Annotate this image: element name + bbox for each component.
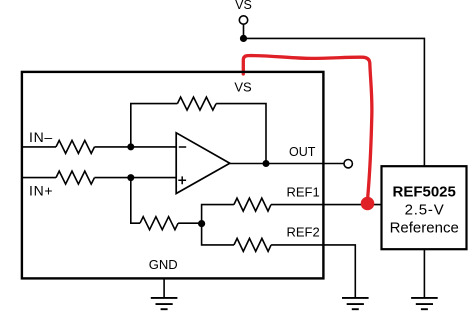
terminal OUT open circle (344, 160, 352, 168)
wire IN- to op-amp minus input (95, 146, 177, 148)
wire VS junction to REF5025 VIN (244, 38, 425, 166)
svg-text:REF2: REF2 (287, 225, 320, 240)
wire VS terminal to junction (243, 24, 245, 38)
difference amplifier box U1 (22, 72, 324, 279)
ground symbol below GND (151, 298, 178, 309)
wire op-amp output to OUT terminal (230, 163, 344, 165)
resistor R feedback (177, 97, 216, 110)
resistor R gain (140, 217, 178, 230)
junction dot minus node (127, 143, 134, 150)
red highlighted wire VS pin to REF1 node (243, 56, 372, 199)
svg-text:VS: VS (234, 80, 252, 95)
junction dot ref split node (198, 220, 205, 227)
svg-text:OUT: OUT (289, 145, 316, 159)
op-amp A1 triangle (176, 133, 230, 194)
wire split node down to REF2 row (202, 223, 234, 245)
red junction dot at REF1 (361, 197, 375, 211)
svg-text:IN–: IN– (29, 129, 53, 145)
wire plus node down to gain resistor (131, 178, 140, 224)
svg-text:IN+: IN+ (29, 183, 53, 199)
wire REF2 out to ground drop (271, 245, 355, 297)
wire feedback right (down to output node) (216, 104, 266, 164)
wire IN+ lead from box edge (22, 177, 56, 179)
wire feedback left (minus node up and right) (131, 104, 178, 147)
wire REF1 to REF5025 (271, 204, 381, 206)
ground symbol below REF2 wire (342, 298, 369, 309)
svg-text:Reference: Reference (390, 220, 459, 237)
wire GND stem (163, 279, 165, 297)
resistor R REF1 (234, 198, 271, 211)
resistor R REF2 (234, 238, 271, 251)
wire IN+ to op-amp plus input (95, 177, 177, 179)
wire IN- lead from box edge (22, 146, 56, 148)
wire split node up to REF1 row (202, 205, 234, 224)
op-amp plus sign (178, 176, 186, 184)
svg-text:REF5025: REF5025 (393, 184, 456, 201)
wire gain resistor to ref split node (178, 222, 202, 224)
resistor R on IN+ (56, 171, 95, 184)
svg-text:VS: VS (235, 0, 252, 12)
svg-text:2.5-V: 2.5-V (405, 201, 445, 218)
resistor R on IN- (56, 140, 95, 153)
op-amp minus sign (179, 146, 186, 148)
junction dot output node (263, 160, 270, 167)
wire REF5025 ground stem (423, 249, 425, 297)
junction dot VS supply (240, 35, 247, 42)
junction dot plus node (127, 174, 134, 181)
svg-text:GND: GND (149, 257, 178, 272)
REF5025 box U2 (382, 166, 467, 249)
terminal VS open circle (239, 16, 247, 24)
svg-text:REF1: REF1 (287, 185, 320, 200)
ground symbol below REF5025 (411, 298, 438, 309)
